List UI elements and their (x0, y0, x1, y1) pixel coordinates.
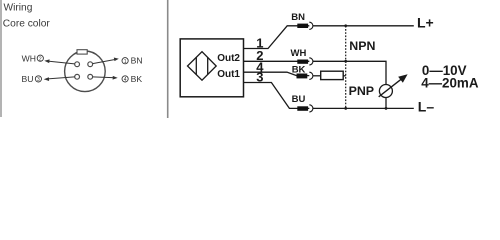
BK wire to load (313, 75, 321, 77)
svg-text:BU: BU (292, 94, 306, 105)
sensor box U1 (180, 39, 243, 97)
WH wire to meter (313, 61, 386, 84)
load resistor (321, 71, 344, 79)
junction dashed/WH (344, 60, 347, 63)
connector M12 body (65, 51, 106, 92)
load to option line (343, 75, 346, 77)
label BU 3 (22, 74, 42, 84)
WH connector arc (309, 58, 313, 65)
svg-text:L–: L– (418, 98, 435, 114)
WH wire color block (297, 60, 308, 64)
junction dashed/BN (344, 24, 347, 27)
BK connector arc (309, 72, 313, 79)
svg-text:4—20mA: 4—20mA (421, 76, 479, 91)
connector pin 4 (BK, bottom-right) (88, 74, 93, 79)
left border (0, 0, 2, 117)
arrow pin3 to BU label (44, 77, 75, 81)
wire pin1 to BN line (244, 26, 310, 49)
svg-text:NPN: NPN (349, 39, 375, 53)
svg-text:Wiring: Wiring (4, 2, 33, 13)
BN connector arc (309, 22, 313, 29)
svg-text:3: 3 (37, 77, 40, 83)
wire pin2 (WH) (244, 60, 310, 62)
svg-text:BN: BN (291, 12, 305, 23)
connector pin 1 (BN, top-right) (88, 62, 93, 67)
connector pin 3 (BU, bottom-left) (75, 74, 80, 79)
label 1 BN (122, 56, 143, 66)
NPN/PNP option dashed line (345, 26, 347, 109)
BK wire color block (297, 74, 308, 79)
meter to L- wire (385, 98, 387, 109)
svg-text:Core color: Core color (3, 18, 51, 29)
wire pin3 (BU) (244, 83, 310, 109)
BU connector arc (309, 105, 313, 112)
label WH 2 (22, 53, 44, 63)
BU wire color block (297, 106, 308, 111)
BN wire color block (297, 24, 308, 28)
svg-text:BN: BN (131, 56, 143, 66)
svg-text:BK: BK (131, 74, 143, 84)
BU wire to L- (313, 107, 414, 109)
svg-text:WH: WH (291, 48, 307, 59)
svg-text:2: 2 (39, 56, 42, 62)
arrow pin1 to BN label (93, 58, 119, 64)
svg-text:Out2: Out2 (217, 53, 240, 64)
panel divider (167, 0, 169, 118)
junction dashed/BU (344, 107, 347, 110)
analog meter symbol (379, 85, 392, 98)
meter arrow (379, 74, 408, 97)
svg-text:L+: L+ (417, 14, 434, 30)
svg-text:BU: BU (22, 74, 34, 84)
connector pin 2 (WH, top-left) (75, 62, 80, 67)
svg-text:1: 1 (124, 59, 127, 65)
BN wire to L+ (313, 25, 414, 27)
svg-text:4: 4 (124, 77, 127, 83)
proximity sensor symbol (diamond) (188, 52, 217, 80)
svg-text:WH: WH (22, 53, 36, 63)
wire pin4 (BK) (244, 72, 310, 75)
svg-text:Out1: Out1 (217, 69, 240, 80)
arrow pin4 to BK label (93, 76, 118, 80)
label 4 BK (122, 74, 142, 84)
connector keyway notch (77, 50, 87, 54)
svg-text:PNP: PNP (349, 84, 374, 98)
junction meter/BU (385, 107, 388, 110)
arrow pin2 to WH label (44, 59, 74, 64)
